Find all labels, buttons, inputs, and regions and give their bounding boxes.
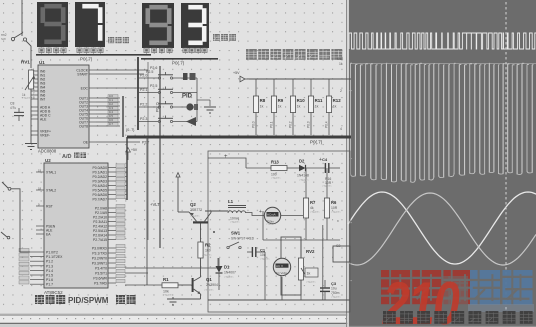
svg-text:1k: 1k	[260, 105, 264, 109]
ground left	[25, 144, 37, 150]
svg-text:P2.4/A12: P2.4/A12	[93, 225, 107, 229]
watermark subtitle	[383, 311, 533, 324]
svg-text:ALE: ALE	[40, 117, 47, 121]
bus vertical ADC	[122, 96, 124, 137]
input terminal	[2, 182, 30, 252]
svg-text:R9: R9	[278, 98, 284, 103]
svg-text:P1.4: P1.4	[46, 269, 53, 273]
resistor R2	[198, 242, 211, 277]
svg-text:R7: R7	[310, 200, 316, 205]
svg-text:1N4007: 1N4007	[224, 271, 236, 275]
capacitor C8	[10, 102, 24, 122]
PWM trace top	[349, 33, 536, 49]
scope axis ticks	[350, 90, 352, 281]
svg-text:<TEXT>: <TEXT>	[22, 96, 32, 100]
voltmeter M1	[246, 207, 306, 223]
svg-text:P0(.7): P0(.7)	[310, 140, 323, 145]
svg-text:P2.3: P2.3	[140, 117, 147, 121]
svg-text:10R: 10R	[331, 206, 338, 210]
svg-text:P2.6/A14: P2.6/A14	[93, 234, 107, 238]
svg-text:P0(.7): P0(.7)	[172, 61, 185, 66]
svg-text:AC V: AC V	[276, 264, 283, 268]
svg-text:4.7u: 4.7u	[10, 106, 16, 110]
svg-text:P0.0: P0.0	[252, 121, 256, 128]
svg-text:<TEXT>: <TEXT>	[331, 295, 341, 299]
svg-text:P3.7/RD: P3.7/RD	[94, 282, 107, 286]
svg-text:P3.6/WR: P3.6/WR	[93, 277, 107, 281]
button P2.3	[138, 116, 197, 123]
svg-text:P0(.7): P0(.7)	[80, 57, 93, 62]
title PWM AC regulator	[246, 49, 342, 60]
svg-text:EA: EA	[46, 233, 51, 237]
svg-text:AC Volts: AC Volts	[276, 271, 288, 275]
resistor R12	[325, 79, 342, 135]
svg-text:+VLT: +VLT	[150, 202, 160, 207]
svg-text:1k: 1k	[339, 62, 343, 66]
svg-text:P0.6/AD6: P0.6/AD6	[92, 193, 107, 197]
watermark gray char	[443, 276, 468, 305]
big box power stage	[208, 151, 350, 312]
svg-text:4: 4	[340, 127, 342, 131]
svg-text:<TEXT>: <TEXT>	[266, 222, 276, 226]
svg-text:RST: RST	[46, 205, 53, 209]
svg-text:VREF-: VREF-	[40, 133, 50, 137]
title MCU PID/SPWM	[35, 295, 136, 305]
svg-text:D2: D2	[299, 159, 305, 164]
svg-text:D1: D1	[224, 265, 230, 270]
label fu-da-zhi	[108, 37, 129, 43]
wire mid rail	[263, 211, 340, 240]
vertical bus x160	[156, 66, 161, 248]
svg-text:P2.2: P2.2	[140, 103, 147, 107]
svg-text:C4: C4	[322, 157, 328, 162]
7seg display LED3 digit 9	[142, 3, 174, 48]
svg-text:PID: PID	[182, 94, 193, 100]
svg-text:<TEXT>: <TEXT>	[163, 293, 173, 297]
svg-text:P3.3/INT1: P3.3/INT1	[92, 262, 107, 266]
voltmeter M2	[273, 258, 290, 275]
svg-text:P0.3/AD3: P0.3/AD3	[92, 180, 107, 184]
svg-text:1N4148: 1N4148	[297, 174, 309, 178]
svg-text:1k0: 1k0	[205, 249, 211, 253]
svg-text:P0.2/AD2: P0.2/AD2	[92, 175, 107, 179]
label A/D conversion	[62, 153, 86, 161]
svg-text:P0.0/AD0: P0.0/AD0	[92, 166, 107, 170]
wire scope edge labels	[336, 57, 343, 248]
svg-text:XTAL2: XTAL2	[46, 189, 56, 193]
svg-text:P2.1/A9: P2.1/A9	[95, 211, 107, 215]
svg-text:P0.7/AD7: P0.7/AD7	[92, 198, 107, 202]
frame bottom	[0, 313, 352, 327]
svg-text:10mH: 10mH	[230, 217, 240, 221]
power flag +5V rail	[233, 71, 249, 82]
svg-text:P2.2/A10: P2.2/A10	[93, 216, 107, 220]
bus vertical MCU P0	[125, 137, 127, 200]
svg-text:R6: R6	[331, 200, 337, 205]
resistor R13	[208, 158, 299, 177]
transistor Q1 2N3904	[178, 277, 218, 299]
bus under displays 3-4	[141, 59, 218, 66]
svg-text:2N3904: 2N3904	[206, 283, 218, 287]
diode D2	[297, 159, 323, 178]
svg-text:P2.3/A11: P2.3/A11	[93, 220, 107, 224]
svg-text:<TEXT>: <TEXT>	[190, 214, 200, 218]
svg-text:P3.5/T1: P3.5/T1	[95, 272, 107, 276]
scope cursor	[505, 2, 507, 322]
button icons	[182, 73, 198, 126]
wire ADC data bus	[96, 94, 120, 126]
svg-text:0.7: 0.7	[109, 122, 113, 126]
button P2.2	[138, 101, 197, 108]
svg-text:P2.0: P2.0	[140, 74, 147, 78]
svg-text:C2: C2	[336, 244, 340, 248]
svg-text:+: +	[319, 157, 322, 163]
svg-text:10u: 10u	[331, 287, 337, 291]
svg-text:{0..7}: {0..7}	[126, 128, 135, 132]
svg-text:XTAL1: XTAL1	[46, 171, 56, 175]
svg-text:EOC: EOC	[81, 86, 89, 90]
svg-text:AT89C52: AT89C52	[44, 290, 63, 295]
svg-text:P0.1: P0.1	[270, 121, 274, 128]
ground Q1	[167, 297, 179, 305]
svg-text:<TEXT>: <TEXT>	[224, 275, 234, 279]
svg-text:A/D: A/D	[62, 154, 72, 160]
svg-text:ADC0808: ADC0808	[38, 149, 57, 154]
watermark small blue strip	[468, 304, 534, 312]
button P2.0	[138, 72, 197, 79]
svg-text:R10: R10	[297, 98, 306, 103]
wire buttons right	[197, 78, 210, 122]
capacitor C1	[247, 247, 266, 257]
svg-text:P2.5: P2.5	[150, 84, 157, 88]
svg-text:PID/SPWM: PID/SPWM	[68, 296, 109, 305]
svg-text:x: x	[337, 219, 339, 223]
bus vertical buttons	[137, 57, 139, 130]
net labels P2	[146, 66, 157, 88]
label ADC0808	[38, 149, 57, 154]
svg-text:<TEXT>: <TEXT>	[306, 280, 316, 284]
ground buttons	[204, 107, 216, 113]
MCU U2 AT89C52	[19, 158, 125, 288]
svg-text:4k: 4k	[310, 206, 314, 210]
svg-text:P0.1/AD1: P0.1/AD1	[92, 171, 107, 175]
resistor R9	[270, 79, 284, 135]
label AT89C52	[44, 290, 63, 295]
svg-text:<TEXT>: <TEXT>	[271, 176, 281, 180]
transistor Q2 2SB772	[178, 202, 211, 224]
scope bottom edge line	[349, 326, 536, 327]
svg-text:P0.3: P0.3	[307, 121, 311, 128]
wire bottom rail	[208, 225, 350, 300]
svg-text:2SB772: 2SB772	[190, 208, 202, 212]
svg-text:+5V: +5V	[131, 148, 138, 152]
label shi-zhong-zhi	[213, 34, 236, 41]
svg-text:L1: L1	[228, 199, 234, 204]
svg-text:R2: R2	[205, 243, 211, 248]
SPWM bottom arcs	[351, 171, 533, 183]
svg-text:C8: C8	[10, 102, 14, 106]
display pin stubs	[39, 48, 207, 54]
svg-text:P1.6: P1.6	[46, 278, 53, 282]
svg-text:R8: R8	[260, 98, 266, 103]
svg-text:2: 2	[340, 89, 342, 93]
7seg display LED4 digit 3	[181, 3, 209, 48]
svg-text:R11: R11	[315, 98, 323, 103]
inductor L1	[205, 199, 246, 221]
svg-text:+: +	[259, 209, 262, 215]
watermark company name	[381, 270, 472, 304]
SPWM top caps	[350, 62, 536, 64]
resistor R7	[303, 168, 316, 240]
switch SW2 top-left	[1, 0, 27, 41]
diode D1	[216, 258, 236, 290]
IC U1 ADC0808	[31, 60, 96, 148]
SPWM carrier trace	[355, 63, 532, 182]
svg-text:1k: 1k	[333, 105, 337, 109]
svg-text:SW-SPST+RED: SW-SPST+RED	[231, 237, 255, 241]
label bus range	[126, 128, 135, 132]
svg-text:P2.0/A8: P2.0/A8	[95, 207, 107, 211]
svg-text:<TEXT>: <TEXT>	[322, 184, 332, 188]
switch SW1	[213, 231, 255, 249]
7seg display LED2 digit 7	[75, 2, 105, 47]
svg-text:P3.4/T0: P3.4/T0	[95, 267, 107, 271]
svg-text:<TEXT>: <TEXT>	[202, 253, 212, 257]
resistor R11	[307, 79, 323, 135]
svg-text:C3: C3	[331, 281, 337, 286]
svg-text:IN7: IN7	[40, 97, 45, 101]
wires MCU P3 long	[125, 258, 218, 285]
potentiometer RV2	[298, 240, 318, 300]
svg-text:750m: 750m	[331, 291, 340, 295]
svg-text:1k: 1k	[297, 105, 301, 109]
svg-text:OE: OE	[83, 140, 89, 144]
bus under displays 1-2	[36, 55, 151, 62]
svg-text:RV2: RV2	[306, 249, 315, 254]
svg-text:R12: R12	[333, 98, 342, 103]
svg-text:P0.4/AD4: P0.4/AD4	[92, 184, 107, 188]
resistor R8	[252, 79, 266, 135]
svg-text:P2.1: P2.1	[140, 88, 147, 92]
svg-text:P0.4: P0.4	[325, 121, 329, 128]
svg-text:P0.5/AD5: P0.5/AD5	[92, 189, 107, 193]
svg-text:U1: U1	[39, 60, 45, 65]
wire Q2 collector down	[200, 224, 202, 243]
svg-text:1k: 1k	[278, 105, 282, 109]
svg-text:19: 19	[38, 168, 42, 172]
svg-text:START: START	[77, 72, 88, 76]
svg-text:P3.1/TXD: P3.1/TXD	[92, 252, 107, 256]
box load	[281, 237, 301, 295]
svg-text:U2: U2	[45, 158, 51, 163]
resistor R6	[324, 168, 337, 240]
wire left rail power	[146, 137, 148, 285]
sine wave A	[348, 192, 536, 264]
svg-text:P1.7: P1.7	[46, 283, 53, 287]
svg-text:SW: SW	[1, 37, 6, 41]
svg-text:R1: R1	[163, 277, 169, 282]
capacitor C4	[322, 157, 340, 185]
svg-text:SW1: SW1	[231, 231, 241, 236]
wire RV1 down	[30, 89, 32, 143]
power flag +5V near ADC	[126, 148, 138, 160]
vertical wire x150	[147, 62, 149, 240]
wire OE	[96, 141, 149, 145]
svg-text:P1.1/T2EX: P1.1/T2EX	[46, 255, 63, 259]
svg-text:P1.3: P1.3	[46, 264, 53, 268]
svg-text:P3.2/INT0: P3.2/INT0	[92, 257, 107, 261]
svg-text:1k: 1k	[307, 272, 311, 276]
potentiometer RV1	[21, 60, 35, 98]
svg-text:ACmA: ACmA	[267, 213, 276, 217]
svg-text:<TEXT>: <TEXT>	[310, 210, 320, 214]
svg-text:10k: 10k	[163, 290, 169, 294]
svg-text:<TEXT>: <TEXT>	[204, 288, 214, 292]
svg-text:<TEXT>: <TEXT>	[331, 210, 341, 214]
svg-text:P0.2: P0.2	[289, 121, 293, 128]
wire Q1 emitter to gnd	[179, 298, 201, 300]
svg-text:Q2: Q2	[190, 202, 196, 207]
svg-text:Q1: Q1	[206, 277, 212, 282]
text placeholders	[22, 96, 341, 299]
svg-text:+: +	[224, 154, 228, 160]
svg-text:P2.7/A15: P2.7/A15	[93, 238, 107, 242]
sine wave B	[348, 193, 536, 265]
box right small	[333, 246, 350, 262]
bus P0 horizontal thick	[127, 137, 351, 145]
svg-text:RV1: RV1	[21, 60, 30, 65]
svg-text:100: 100	[271, 173, 277, 177]
svg-text:<TEXT>: <TEXT>	[230, 220, 240, 224]
resistor R10	[289, 79, 306, 135]
svg-text:R13: R13	[271, 160, 279, 165]
svg-text:R12: R12	[337, 57, 343, 61]
svg-text:P1.2: P1.2	[46, 260, 53, 264]
svg-text:<TEXT>: <TEXT>	[260, 257, 270, 261]
svg-text:OUT8: OUT8	[79, 124, 88, 128]
capacitor C3	[320, 280, 340, 300]
svg-text:P2.5/A13: P2.5/A13	[93, 229, 107, 233]
svg-text:P1.5: P1.5	[46, 274, 53, 278]
svg-text:P1.0/T2: P1.0/T2	[46, 251, 58, 255]
terminal bottom-left	[1, 232, 10, 239]
oscilloscope panel	[346, 0, 536, 327]
7seg display LED1 digit 9	[37, 2, 68, 47]
svg-text:1k: 1k	[315, 105, 319, 109]
svg-text:18: 18	[38, 186, 42, 190]
svg-text:P3.0/RXD: P3.0/RXD	[92, 247, 108, 251]
button P2.1	[138, 87, 197, 94]
wire ADC clock/start	[96, 70, 148, 88]
schematic canvas background	[0, 0, 352, 327]
plus mark C4	[259, 157, 322, 215]
resistor R1	[162, 277, 178, 294]
power flag +VLT	[150, 173, 180, 207]
wire switch to RV1	[26, 41, 31, 68]
svg-text:+5V: +5V	[233, 71, 240, 75]
svg-text:<TEXT>: <TEXT>	[299, 178, 309, 182]
rail top resistors	[249, 78, 351, 80]
